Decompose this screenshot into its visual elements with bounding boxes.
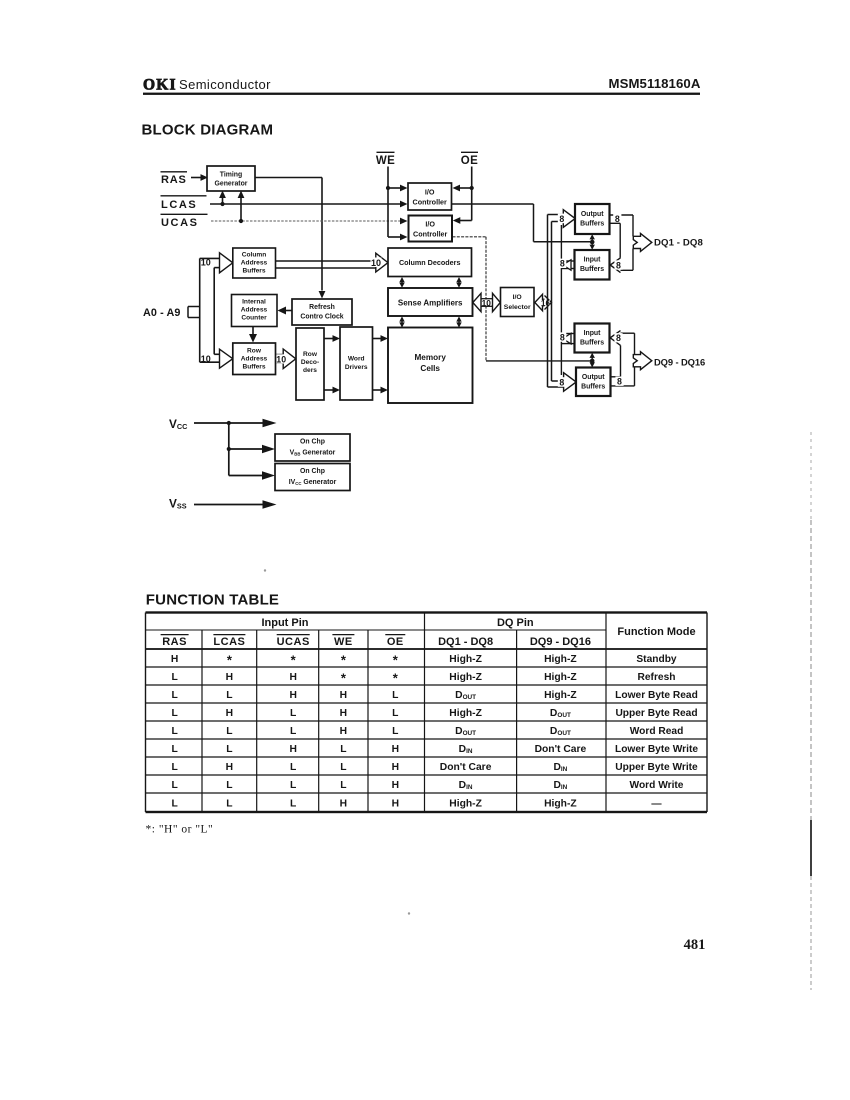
signal label VSS	[169, 497, 187, 511]
wire OE to I/O Controller 2	[453, 217, 472, 224]
svg-text:Drivers: Drivers	[345, 364, 368, 371]
svg-text:H: H	[226, 672, 233, 683]
svg-text:I/O: I/O	[513, 294, 522, 301]
block Word Drivers	[340, 327, 373, 400]
svg-text:L: L	[290, 726, 296, 737]
table header Function Mode	[617, 626, 695, 638]
signal label DQ1 - DQ8	[654, 238, 703, 249]
svg-text:RAS: RAS	[161, 174, 187, 186]
table group header DQ Pin	[497, 617, 534, 629]
svg-text:Contro Clock: Contro Clock	[300, 314, 343, 321]
bus arrow 8 into Output Buffers lower	[558, 373, 576, 392]
svg-text:L: L	[392, 726, 398, 737]
bus 16 I/O Selector to data bus	[535, 294, 552, 310]
svg-text:Timing: Timing	[220, 172, 242, 179]
header text Semiconductor	[179, 77, 271, 92]
bus 16 vertical left line	[548, 215, 564, 388]
svg-text:Address: Address	[241, 307, 268, 314]
signal label UCAS	[161, 214, 208, 229]
svg-text:L: L	[171, 726, 177, 737]
signal label RAS	[161, 172, 188, 186]
bus arrow 8 into Output Buffers upper	[558, 210, 575, 228]
block Input Buffers upper	[575, 250, 610, 280]
svg-text:Lower Byte Read: Lower Byte Read	[615, 690, 698, 701]
svg-text:Upper Byte Read: Upper Byte Read	[615, 708, 697, 719]
svg-text:ders: ders	[303, 367, 317, 374]
svg-text:8: 8	[559, 377, 564, 387]
wire UCAS line	[211, 218, 408, 225]
block Output Buffers upper	[575, 204, 610, 234]
bus rail inner	[214, 268, 220, 355]
svg-text:H: H	[226, 762, 233, 773]
block Timing Generator	[207, 166, 255, 191]
svg-text:WE: WE	[334, 636, 353, 648]
svg-text:Input Pin: Input Pin	[261, 617, 308, 629]
wire DQ1-DQ8 return to Input Buffers upper	[621, 249, 634, 271]
wire WE vertical	[387, 167, 389, 238]
svg-text:H: H	[289, 744, 296, 755]
svg-text:Word Read: Word Read	[630, 726, 684, 737]
svg-text:Column Decoders: Column Decoders	[399, 258, 461, 267]
wire Timing Generator output to Refresh Contro Clock	[254, 178, 325, 299]
signal label VCC	[169, 417, 188, 431]
svg-text:8: 8	[617, 376, 622, 386]
svg-text:H: H	[289, 690, 296, 701]
svg-text:DQ9 - DQ16: DQ9 - DQ16	[530, 636, 591, 648]
table header WE	[332, 635, 354, 648]
svg-text:H: H	[171, 654, 178, 665]
svg-text:Address: Address	[241, 260, 268, 267]
svg-text:Deco-: Deco-	[301, 359, 319, 366]
header rule	[143, 93, 700, 95]
svg-text:DQ1 - DQ8: DQ1 - DQ8	[438, 636, 493, 648]
svg-text:DQ9 - DQ16: DQ9 - DQ16	[654, 357, 705, 368]
wire Row Decoders to Word Drivers upper	[324, 335, 340, 342]
wire RAS to Timing Generator	[191, 174, 208, 181]
wire I/O Controller 2 output	[453, 237, 591, 361]
footnote asterisk H or L	[146, 824, 214, 836]
svg-text:L: L	[226, 798, 232, 809]
bus inner rail	[560, 225, 562, 375]
svg-text:H: H	[340, 798, 347, 809]
bus width label 10	[371, 258, 382, 268]
svg-text:BLOCK DIAGRAM: BLOCK DIAGRAM	[142, 122, 274, 139]
svg-text:10: 10	[201, 354, 211, 364]
svg-text:Don't Care: Don't Care	[440, 762, 492, 773]
svg-text:High-Z: High-Z	[544, 798, 577, 809]
svg-text:L: L	[171, 798, 177, 809]
bus arrow 10 into Row Address Buffers	[201, 349, 233, 368]
wire Row Decoders to Word Drivers lower	[324, 387, 340, 394]
svg-text:Address: Address	[241, 356, 268, 363]
svg-text:High-Z: High-Z	[544, 690, 577, 701]
block Row Decoders	[296, 328, 324, 400]
block I/O Controller 2	[409, 216, 453, 242]
svg-text:H: H	[392, 798, 399, 809]
table header OE	[385, 635, 405, 648]
svg-text:481: 481	[684, 937, 706, 953]
block Row Address Buffers	[233, 343, 276, 375]
svg-text:Sense Amplifiers: Sense Amplifiers	[398, 299, 463, 308]
bus A0-A9 entry stub	[188, 307, 200, 318]
svg-text:Selector: Selector	[504, 304, 531, 311]
svg-text:*: "H" or "L": *: "H" or "L"	[146, 824, 214, 836]
svg-text:IVCC Generator: IVCC Generator	[289, 479, 337, 486]
svg-text:L: L	[392, 690, 398, 701]
page number 481	[684, 937, 706, 953]
table row 1: Standby	[171, 652, 677, 667]
svg-text:L: L	[226, 780, 232, 791]
svg-text:10: 10	[371, 258, 381, 268]
svg-text:L: L	[392, 708, 398, 719]
bus Column Address Buffers to Column Decoders	[276, 253, 389, 272]
connector DQ1 - DQ8 pad arrow	[633, 233, 652, 251]
svg-text:High-Z: High-Z	[544, 672, 577, 683]
svg-text:L: L	[171, 690, 177, 701]
svg-text:UCAS: UCAS	[161, 217, 199, 229]
svg-text:Buffers: Buffers	[581, 384, 605, 391]
svg-text:Counter: Counter	[241, 315, 267, 322]
svg-text:H: H	[340, 708, 347, 719]
wire Internal Address Counter to Row Address Buffers	[249, 327, 257, 343]
svg-text:Input: Input	[584, 257, 602, 264]
svg-text:High-Z: High-Z	[544, 654, 577, 665]
block I/O Controller 1	[408, 183, 452, 210]
svg-text:Buffers: Buffers	[242, 268, 265, 275]
svg-text:L: L	[290, 708, 296, 719]
svg-text:H: H	[340, 726, 347, 737]
wire OE vertical	[471, 167, 473, 221]
svg-text:L: L	[171, 708, 177, 719]
connector DQ9 - DQ16 pad arrow	[633, 352, 652, 370]
svg-text:L: L	[290, 780, 296, 791]
svg-text:10: 10	[276, 355, 286, 365]
svg-text:L: L	[226, 690, 232, 701]
block Memory Cells	[388, 328, 473, 404]
wire LCAS line	[210, 201, 408, 208]
svg-text:Upper Byte Write: Upper Byte Write	[615, 762, 698, 773]
signal label WE	[376, 152, 395, 167]
table row 2: Refresh	[171, 670, 675, 685]
junction VCC branch	[227, 421, 231, 476]
scan speck 1	[264, 569, 266, 571]
svg-text:Refresh: Refresh	[309, 304, 335, 311]
svg-text:Don't Care: Don't Care	[535, 744, 587, 755]
svg-text:Row: Row	[247, 348, 262, 355]
svg-text:OE: OE	[461, 155, 478, 167]
arrow into Input Buffers upper right	[610, 258, 622, 273]
header part number MSM5118160A	[608, 76, 700, 91]
svg-text:H: H	[392, 744, 399, 755]
svg-text:Lower Byte Write: Lower Byte Write	[615, 744, 698, 755]
wire Input Buffers lower tail to DQ9-DQ16	[619, 333, 635, 354]
svg-text:L: L	[171, 780, 177, 791]
signal label DQ9 - DQ16	[654, 357, 705, 368]
block On Chp IVCC Generator	[275, 464, 350, 491]
table header RAS	[161, 635, 189, 648]
table row 6: Lower Byte Write	[171, 744, 698, 755]
svg-text:LCAS: LCAS	[213, 636, 245, 648]
junction Output/Input Buffers upper	[590, 234, 595, 250]
bus arrow 10 Row Address Buffers to Row Decoders	[276, 349, 296, 369]
bus tap 8 from Input Buffers lower	[558, 332, 574, 344]
wire Word Drivers to Memory Cells lower	[373, 387, 389, 394]
block Column Decoders	[388, 248, 472, 277]
bus tap 8 from Input Buffers upper	[558, 259, 574, 271]
svg-text:L: L	[226, 744, 232, 755]
svg-text:8: 8	[616, 260, 621, 270]
svg-text:Function Mode: Function Mode	[617, 626, 695, 638]
wire Sense Amplifiers / Memory Cells link 2	[456, 316, 461, 327]
svg-text:L: L	[340, 762, 346, 773]
table row 3: Lower Byte Read	[171, 690, 697, 701]
signal label LCAS	[161, 196, 207, 211]
table header DQ1 - DQ8	[438, 636, 493, 648]
bus 16 vertical right line	[552, 222, 564, 382]
svg-text:L: L	[171, 744, 177, 755]
table row 4: Upper Byte Read	[171, 708, 697, 719]
svg-text:DQ Pin: DQ Pin	[497, 617, 534, 629]
table function table grid	[146, 611, 708, 813]
svg-text:Standby: Standby	[636, 654, 677, 665]
wire VCC to On Chp VBB Generator	[229, 445, 275, 453]
svg-text:Internal: Internal	[242, 299, 266, 306]
wire Word Drivers to Memory Cells upper	[373, 335, 389, 342]
svg-text:Input: Input	[584, 330, 602, 337]
svg-text:Row: Row	[303, 351, 318, 358]
svg-text:LCAS: LCAS	[161, 199, 197, 211]
svg-text:10: 10	[201, 257, 211, 267]
bus arrow 10 into Column Address Buffers	[201, 253, 233, 273]
svg-text:Controller: Controller	[413, 198, 448, 207]
svg-text:8: 8	[616, 333, 621, 343]
svg-text:Output: Output	[582, 374, 605, 381]
svg-text:High-Z: High-Z	[449, 672, 482, 683]
svg-text:L: L	[340, 744, 346, 755]
svg-text:VBB Generator: VBB Generator	[290, 450, 336, 457]
wire Output Buffers upper enable to Input Buffers arrow	[610, 223, 621, 257]
table row 9: —	[171, 798, 662, 809]
wire VSS	[194, 500, 277, 508]
signal label A0 - A9	[143, 307, 181, 319]
svg-text:8: 8	[560, 259, 565, 269]
svg-text:8: 8	[615, 214, 620, 224]
svg-text:H: H	[392, 762, 399, 773]
svg-text:On Chp: On Chp	[300, 439, 325, 446]
wire VCC to On Chp IVCC Generator	[229, 471, 275, 479]
junction Input/Output Buffers lower	[590, 353, 595, 368]
wire Output Buffers upper to DQ1-DQ8	[610, 214, 634, 236]
svg-text:I/O: I/O	[425, 188, 435, 197]
block Column Address Buffers	[233, 248, 276, 278]
svg-text:Controller: Controller	[413, 230, 448, 239]
svg-text:Generator: Generator	[215, 181, 248, 188]
svg-text:On Chp: On Chp	[300, 468, 325, 475]
svg-text:RAS: RAS	[162, 636, 187, 648]
table header UCAS	[277, 635, 310, 648]
scan artifact right edge line	[810, 432, 812, 990]
svg-text:OE: OE	[387, 636, 404, 648]
table header LCAS	[213, 635, 245, 648]
OKI logo	[143, 77, 177, 94]
svg-text:A0 - A9: A0 - A9	[143, 307, 181, 319]
svg-text:L: L	[340, 780, 346, 791]
wire Output Buffers lower to DQ9-DQ16	[611, 365, 635, 387]
svg-text:Output: Output	[581, 211, 604, 218]
arrow into Input Buffers lower right	[610, 331, 622, 346]
svg-text:High-Z: High-Z	[449, 654, 482, 665]
wire OE to I/O Controller 1	[453, 185, 474, 192]
svg-text:MSM5118160A: MSM5118160A	[608, 76, 700, 91]
svg-text:Semiconductor: Semiconductor	[179, 77, 271, 92]
signal label OE	[461, 152, 478, 167]
svg-text:8: 8	[559, 214, 564, 224]
table row 7: Upper Byte Write	[171, 762, 698, 773]
svg-text:—: —	[651, 798, 662, 809]
svg-text:Buffers: Buffers	[580, 266, 604, 273]
svg-text:FUNCTION TABLE: FUNCTION TABLE	[146, 592, 279, 609]
svg-text:H: H	[340, 690, 347, 701]
svg-text:8: 8	[560, 332, 565, 342]
wire Sense Amplifiers / Memory Cells link 1	[399, 316, 404, 327]
table row 5: Word Read	[171, 726, 683, 737]
wire WE to I/O Controller 2	[388, 234, 408, 241]
svg-text:High-Z: High-Z	[449, 798, 482, 809]
table header DQ9 - DQ16	[530, 636, 591, 648]
svg-text:Column: Column	[242, 252, 267, 259]
wire Input Buffers lower enable	[610, 345, 621, 376]
junction LCAS to Timing Generator	[219, 191, 226, 207]
heading BLOCK DIAGRAM	[142, 122, 274, 139]
block Refresh Contro Clock	[292, 299, 352, 325]
svg-text:16: 16	[541, 298, 551, 308]
svg-text:H: H	[392, 780, 399, 791]
svg-text:H: H	[226, 708, 233, 719]
svg-text:DQ1 - DQ8: DQ1 - DQ8	[654, 238, 703, 249]
block Sense Amplifiers	[388, 288, 473, 316]
svg-text:H: H	[289, 672, 296, 683]
wire Column Decoders / Sense Amplifiers link 2	[456, 277, 461, 288]
svg-text:Word: Word	[348, 356, 365, 363]
table row 8: Word Write	[171, 780, 683, 791]
wire WE to I/O Controller 1	[386, 185, 408, 192]
block On Chp VBB Generator	[275, 434, 350, 461]
svg-text:L: L	[290, 798, 296, 809]
svg-text:Cells: Cells	[420, 364, 440, 373]
svg-text:L: L	[226, 726, 232, 737]
svg-text:WE: WE	[376, 155, 395, 167]
svg-text:L: L	[290, 762, 296, 773]
heading FUNCTION TABLE	[146, 592, 279, 609]
svg-text:Word Write: Word Write	[630, 780, 684, 791]
block I/O Selector	[501, 288, 535, 317]
svg-text:Buffers: Buffers	[242, 364, 265, 371]
svg-text:Buffers: Buffers	[580, 339, 604, 346]
wire I/O Controller 1 output	[452, 204, 590, 242]
scan speck 2	[408, 912, 410, 914]
block Internal Address Counter	[232, 295, 278, 327]
svg-text:Buffers: Buffers	[580, 221, 604, 228]
svg-text:Memory: Memory	[414, 353, 446, 362]
wire VCC	[194, 419, 277, 427]
svg-text:L: L	[171, 762, 177, 773]
svg-text:High-Z: High-Z	[449, 708, 482, 719]
svg-text:Refresh: Refresh	[638, 672, 676, 683]
table group header Input Pin	[261, 617, 308, 629]
block Input Buffers lower	[575, 324, 610, 353]
wire Refresh Contro Clock to Internal Address Counter	[278, 307, 293, 315]
junction UCAS to Timing Generator	[238, 191, 245, 224]
svg-text:10: 10	[482, 298, 492, 308]
bus 10 Sense Amplifiers to I/O Selector	[473, 293, 501, 311]
svg-text:I/O: I/O	[425, 220, 435, 229]
svg-text:OKI: OKI	[143, 77, 177, 94]
block Output Buffers lower	[576, 368, 611, 397]
svg-text:UCAS: UCAS	[277, 636, 310, 648]
svg-text:L: L	[171, 672, 177, 683]
wire Column Decoders / Sense Amplifiers link 1	[399, 277, 404, 288]
bus rail outer	[200, 258, 220, 362]
